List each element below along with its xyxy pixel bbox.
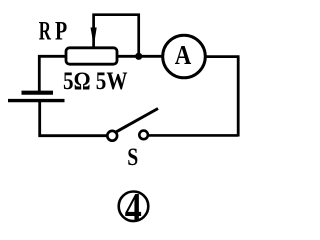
wire bottom-right horizontal (switch to right corner) <box>149 134 239 137</box>
battery cell E (bottom long plate) <box>8 99 65 102</box>
wire bottom-left horizontal (to switch) <box>38 134 106 137</box>
rheostat RP body <box>66 48 117 64</box>
svg-text:4: 4 <box>125 184 142 230</box>
wire top-left horizontal (battery+ to rheostat left) <box>38 55 66 58</box>
wire ammeter right to top-right corner <box>206 55 240 58</box>
wire rheostat right end to ammeter left <box>117 55 163 58</box>
svg-text:S: S <box>127 144 138 171</box>
wire left vertical (top corner down to battery) <box>38 55 41 91</box>
svg-text:R: R <box>39 17 51 46</box>
switch S blade (open, angled up-right) <box>116 109 158 132</box>
node junction dot (wiper tap joins output) <box>135 53 142 60</box>
figure number circle ④ <box>119 192 149 222</box>
wire battery to bottom-left corner <box>38 101 41 135</box>
battery cell E (top short plate) <box>22 91 54 95</box>
wire right vertical <box>237 57 240 137</box>
wire wiper short-circuit loop (up, across, down to junction) <box>94 15 139 57</box>
rheostat wiper arrowhead pointing down at RP body <box>91 28 97 47</box>
ammeter A circle <box>163 35 206 78</box>
svg-text:5Ω 5W: 5Ω 5W <box>63 68 128 95</box>
switch S right terminal <box>139 131 148 140</box>
svg-text:P: P <box>55 17 67 46</box>
switch S left terminal <box>107 131 117 141</box>
svg-text:A: A <box>175 40 192 70</box>
